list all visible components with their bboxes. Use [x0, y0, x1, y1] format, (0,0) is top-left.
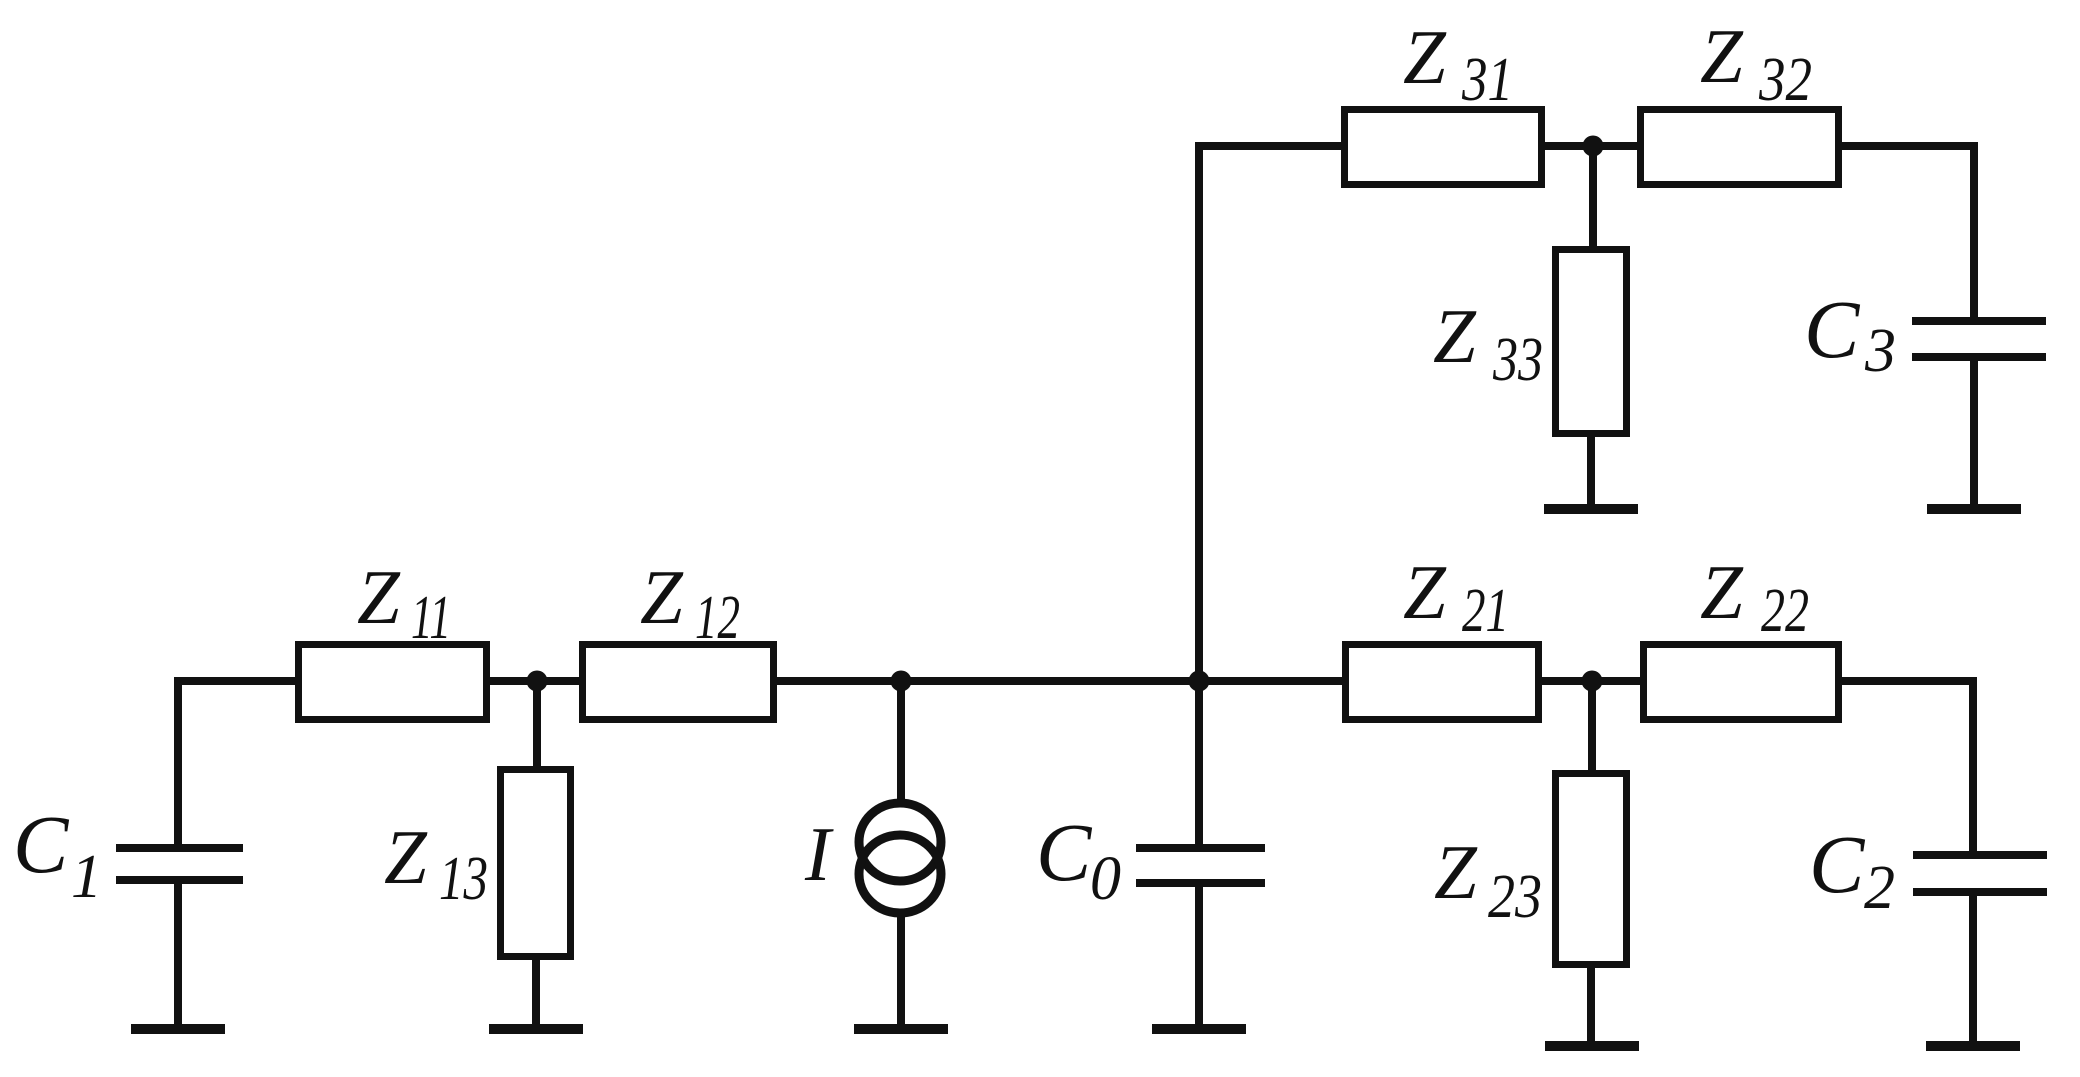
- wire Z32 right to C3 riser: [1842, 146, 1974, 321]
- resistor Z12: [583, 645, 774, 720]
- current source I (two overlapped circles): [859, 803, 941, 881]
- capacitor C2: [1913, 851, 2047, 859]
- resistor Z22: [1644, 645, 1839, 720]
- svg-text:1: 1: [71, 843, 102, 911]
- resistor Z31: [1345, 110, 1542, 185]
- ground C0: [1152, 1024, 1246, 1034]
- resistor Z32: [1641, 110, 1839, 185]
- svg-text:C: C: [1036, 806, 1093, 898]
- wire Z23 to ground: [1587, 964, 1595, 1046]
- wire Z11 to Z12: [490, 677, 579, 685]
- svg-text:23: 23: [1488, 863, 1542, 931]
- wire C1 to ground: [174, 880, 182, 1029]
- svg-text:21: 21: [1462, 577, 1509, 645]
- svg-text:12: 12: [695, 584, 740, 652]
- wire stem to C0: [1195, 681, 1203, 848]
- ground C3: [1927, 504, 2021, 514]
- svg-text:13: 13: [439, 845, 488, 913]
- svg-text:33: 33: [1492, 326, 1543, 394]
- svg-text:Z: Z: [1403, 549, 1447, 635]
- capacitor C3: [1912, 317, 2046, 325]
- svg-text:Z: Z: [1700, 549, 1744, 635]
- svg-text:2: 2: [1864, 854, 1895, 922]
- svg-text:Z: Z: [384, 814, 428, 900]
- svg-text:31: 31: [1461, 46, 1513, 114]
- svg-text:C: C: [1804, 283, 1861, 375]
- node dot Z21/Z22/Z23: [1582, 671, 1603, 692]
- node dot top tee: [1583, 136, 1604, 157]
- wire stem to Z23: [1588, 681, 1596, 774]
- node dot current source tap: [891, 671, 912, 692]
- svg-text:32: 32: [1758, 46, 1812, 114]
- wire C3 to ground: [1970, 357, 1978, 509]
- wire riser from main bus up to top tee network: [1199, 146, 1341, 686]
- svg-text:C: C: [13, 798, 70, 890]
- svg-text:3: 3: [1864, 317, 1896, 385]
- wire stem top node to Z33: [1589, 146, 1597, 250]
- svg-text:Z: Z: [1433, 293, 1477, 379]
- main bus Z12 to Z21: [777, 677, 1342, 685]
- wire current source to ground: [897, 910, 905, 1029]
- wire C2 to ground: [1969, 892, 1977, 1046]
- ground Z33: [1544, 504, 1638, 514]
- resistor Z23: [1556, 774, 1627, 965]
- svg-text:I: I: [804, 811, 834, 897]
- ground C2: [1926, 1041, 2020, 1051]
- ground C1: [131, 1024, 225, 1034]
- capacitor C0: [1136, 844, 1265, 852]
- svg-text:Z: Z: [1700, 13, 1744, 99]
- svg-text:0: 0: [1090, 845, 1121, 913]
- svg-text:Z: Z: [357, 554, 401, 640]
- wire Z33 to ground: [1587, 433, 1595, 509]
- ground Z13: [489, 1024, 583, 1034]
- node dot Z11/Z12/Z13: [527, 671, 548, 692]
- resistor Z21: [1346, 645, 1539, 720]
- resistor Z13: [501, 770, 571, 957]
- wire stem to Z13: [533, 681, 541, 770]
- wire Z13 to ground: [532, 956, 540, 1029]
- resistor Z11: [299, 645, 487, 720]
- svg-text:Z: Z: [1434, 829, 1478, 915]
- wire Z22 right to C2 riser: [1842, 681, 1973, 855]
- svg-text:22: 22: [1761, 577, 1809, 645]
- svg-text:C: C: [1809, 818, 1866, 910]
- wire stem to current source: [897, 681, 905, 806]
- wire Z21 to Z22: [1542, 677, 1640, 685]
- capacitor C1 with riser to main bus: [178, 681, 295, 848]
- ground Z23: [1545, 1041, 1639, 1051]
- wire Z31 to Z32: [1545, 142, 1637, 150]
- svg-text:Z: Z: [640, 554, 684, 640]
- resistor Z33: [1556, 250, 1627, 434]
- wire C0 to ground: [1195, 883, 1203, 1029]
- node dot central junction: [1189, 671, 1210, 692]
- svg-text:11: 11: [411, 584, 451, 652]
- svg-text:Z: Z: [1403, 14, 1447, 100]
- ground I: [854, 1024, 948, 1034]
